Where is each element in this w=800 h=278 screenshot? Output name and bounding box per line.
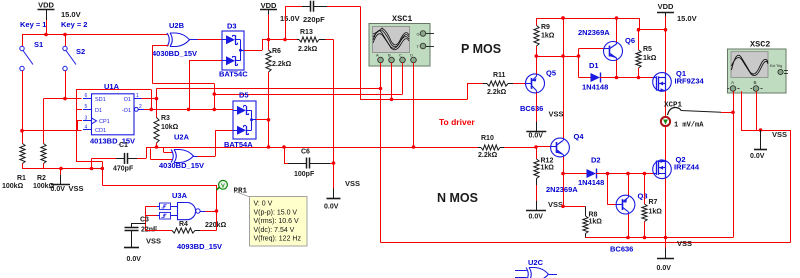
svg-text:D5: D5 (239, 91, 249, 100)
label D1 (589, 61, 599, 70)
label BC636 (Q5) (520, 104, 543, 113)
label R3 (161, 115, 170, 122)
power VDD symbol (left) (38, 1, 55, 21)
label 15.0V (mid) (280, 14, 300, 23)
svg-text:IRFZ44: IRFZ44 (674, 163, 700, 172)
label 1kohm R8 (589, 219, 603, 226)
node D5out-R6 j (267, 118, 271, 122)
label R10 (481, 135, 494, 142)
node R5 bottom j (637, 76, 641, 80)
label Q1 (676, 69, 686, 78)
wire Q5 top (536, 56, 538, 74)
svg-text:1N4148: 1N4148 (578, 178, 604, 187)
resistor R7 (642, 174, 647, 238)
svg-text:P MOS: P MOS (461, 42, 501, 56)
wire nO1 line (144, 109, 233, 111)
label 470pF (113, 166, 134, 173)
label 0.0V (C3) (127, 256, 142, 263)
svg-text:2: 2 (139, 104, 142, 110)
svg-text:R12: R12 (541, 158, 554, 165)
svg-text:VSS: VSS (345, 179, 360, 188)
label 1kohm R9 (541, 33, 555, 40)
node nO1 j1 (150, 108, 154, 112)
capacitor C3 (125, 223, 146, 231)
transistor Q6 (604, 42, 623, 61)
label Q3 (638, 192, 648, 201)
wire U2A out (198, 130, 234, 156)
node Q4C rail j (561, 16, 565, 20)
node U2B inB j (213, 92, 217, 96)
label IRF9Z34 (675, 77, 705, 86)
U1A pin names (92, 97, 132, 134)
ground (C3) (124, 231, 139, 248)
svg-text:1N4148: 1N4148 (582, 83, 608, 92)
svg-text:4: 4 (85, 124, 88, 130)
node rail end junction (101, 167, 105, 171)
label 0.0V (Q2) (657, 265, 672, 272)
svg-text:10kΩ: 10kΩ (161, 124, 179, 131)
transistor Q3 (616, 195, 635, 214)
diode D5 top (233, 106, 252, 115)
wire rail step (639, 18, 666, 30)
wire D5 top anode drop (214, 94, 216, 109)
wire Q5 base net (360, 83, 483, 100)
svg-text:15.0V: 15.0V (61, 10, 81, 19)
svg-text:Ext Trig: Ext Trig (770, 64, 782, 68)
svg-text:1kΩ: 1kΩ (649, 209, 663, 216)
svg-text:BAT54A: BAT54A (224, 140, 253, 149)
node 220pF j (283, 38, 287, 42)
label 220kohm (205, 222, 227, 229)
wire Q3 top (628, 174, 630, 196)
svg-text:CD1: CD1 (95, 128, 106, 134)
label 0.0V (R13) (324, 204, 339, 211)
diode D1 (579, 73, 617, 83)
svg-text:1: 1 (136, 93, 139, 99)
svg-text:D1: D1 (95, 108, 102, 114)
label 2N2369A (Q4) (546, 185, 578, 194)
svg-text:D: D (410, 53, 413, 58)
U1A pin numbers (85, 93, 143, 130)
wire C1 left (92, 158, 117, 168)
resistor R2 (41, 141, 46, 169)
switch S2 (63, 46, 76, 70)
label XSC2 (750, 40, 770, 50)
ground (XSC2) (754, 130, 767, 150)
wire D3 out (244, 40, 297, 51)
node rail Q4C j (561, 16, 565, 20)
label VSS (R13) (345, 179, 360, 188)
svg-text:2N2369A: 2N2369A (578, 28, 610, 37)
svg-text:R11: R11 (493, 72, 506, 79)
xor U2B (167, 33, 198, 47)
wire U2A in jog (151, 147, 173, 160)
svg-text:V(freq): 122 Hz: V(freq): 122 Hz (254, 236, 302, 243)
svg-text:V(rms): 10.6 V: V(rms): 10.6 V (254, 218, 299, 225)
label VSS (C3) (146, 237, 161, 246)
svg-text:1kΩ: 1kΩ (643, 55, 657, 62)
wire Q4 emitter (563, 157, 565, 174)
label R4 (179, 221, 188, 228)
label 0.0V (R1R2) (51, 186, 66, 193)
label U3A (172, 191, 188, 200)
label Q6 (625, 36, 635, 45)
svg-text:R7: R7 (649, 199, 658, 206)
label Q5 (546, 69, 556, 78)
label C1 (119, 142, 128, 149)
svg-text:VSS: VSS (677, 239, 692, 248)
schmitt input B (157, 212, 178, 219)
label VSS (R12) (548, 200, 563, 209)
node R8 top j (561, 205, 565, 209)
wire XSC2 Aneg drop (741, 91, 761, 130)
svg-text:SD1: SD1 (95, 97, 106, 103)
node Q5-R9 j (535, 54, 539, 58)
svg-text:1kΩ: 1kΩ (541, 165, 555, 172)
label 4013BD_15V (90, 137, 135, 146)
svg-text:Q4: Q4 (574, 132, 585, 141)
svg-text:To driver: To driver (439, 117, 475, 127)
svg-text:S1: S1 (34, 40, 43, 49)
node VDD2-R6 j (267, 38, 271, 42)
label 2N2369A (Q6) (578, 28, 610, 37)
power VDD symbol (mid) (260, 1, 277, 15)
label 2.2kohm R13 (298, 46, 318, 53)
resistor R10 (462, 145, 536, 150)
svg-text:C: C (399, 53, 402, 58)
oscilloscope XSC2 (728, 49, 789, 93)
node ground tap (59, 167, 63, 171)
wire P gate line (617, 77, 654, 79)
node O1 junction (155, 97, 159, 101)
wire Q3 bottom (628, 214, 630, 238)
label 15.0V (left VDD) (61, 10, 81, 19)
svg-text:U3A: U3A (172, 191, 188, 200)
node S2-SD1 junction (63, 97, 67, 101)
wire scope Bneg drop (413, 63, 415, 147)
svg-text:Q6: Q6 (625, 36, 635, 45)
node S2-rail junction (63, 33, 67, 37)
label 15.0V (right) (677, 14, 697, 23)
wire D3 inB (189, 61, 222, 110)
svg-text:4093BD_15V: 4093BD_15V (177, 242, 222, 251)
wire PR1 feed (102, 185, 216, 187)
svg-text:1kΩ: 1kΩ (541, 33, 555, 40)
node XCP1-A j (731, 111, 735, 115)
wire VSS rail bottom (585, 237, 733, 239)
svg-text:U2C: U2C (528, 258, 544, 267)
svg-text:U2B: U2B (169, 21, 185, 30)
wire S2 bottom (65, 71, 67, 99)
power VDD symbol (right) (657, 2, 674, 17)
svg-text:0.0V: 0.0V (51, 186, 66, 193)
node VDD3 j (664, 28, 668, 32)
wire Q1-Q2 (665, 126, 667, 160)
svg-text:470pF: 470pF (113, 166, 134, 173)
label 100kohm R1 (2, 183, 24, 190)
svg-text:R13: R13 (300, 29, 313, 36)
label R7 (649, 199, 658, 206)
ground (R1 R2) (51, 168, 70, 185)
wire scope A drop (380, 63, 382, 89)
wire ground rail (22, 168, 102, 170)
schmitt input A (157, 203, 178, 210)
svg-text:2N2369A: 2N2369A (546, 185, 578, 194)
wire D2 line left (563, 173, 587, 175)
svg-text:XSC2: XSC2 (750, 40, 770, 50)
wire U2B inB (153, 45, 215, 94)
node S1-CD1 junction (20, 129, 24, 133)
svg-text:A: A (376, 53, 379, 58)
D3 common cathode (239, 40, 244, 61)
label P MOS (461, 42, 501, 56)
resistor R8 (583, 206, 588, 237)
wire D5 top anode (214, 109, 233, 111)
node Q6E j (615, 76, 619, 80)
PR1 callout box (234, 191, 307, 246)
svg-text:220pF: 220pF (303, 15, 325, 24)
label Key = 1 (20, 20, 46, 29)
svg-text:R3: R3 (161, 115, 170, 122)
node Q3S rail j (626, 236, 630, 240)
wire XSC2 A drop (733, 91, 735, 237)
label 10kohm (161, 124, 179, 131)
node Q4E-D2 j (561, 172, 565, 176)
label D2 (591, 156, 601, 165)
svg-text:Key = 1: Key = 1 (20, 20, 46, 29)
wire Q4 base (536, 146, 551, 148)
svg-text:VDD: VDD (658, 2, 674, 11)
svg-text:V(dc): 7.54 V: V(dc): 7.54 V (254, 227, 295, 234)
label 0.0V (R12) (529, 214, 544, 221)
diode D2 (587, 169, 608, 179)
switch S1 (20, 46, 33, 70)
resistor R9 (534, 18, 539, 56)
svg-text:S2: S2 (76, 47, 85, 56)
wire CD1 net (22, 121, 82, 131)
wire XSC2 B drop (756, 91, 758, 130)
svg-text:C3: C3 (140, 217, 149, 224)
svg-text:XSC1: XSC1 (392, 14, 412, 24)
label R12 (541, 158, 554, 165)
ground (R13) (327, 189, 341, 199)
label XSC1 (392, 14, 412, 24)
node Q4C mid j (561, 54, 565, 58)
svg-text:IRF9Z34: IRF9Z34 (675, 77, 705, 86)
wire R13 gnd (333, 163, 335, 189)
label 1 mV/mA (674, 122, 704, 130)
label U1A (104, 82, 120, 91)
svg-text:V: V (221, 183, 225, 189)
label 22nF (141, 227, 158, 234)
svg-text:B: B (388, 53, 391, 58)
mosfet Q2 IRFZ44 (653, 159, 672, 179)
label D3 (227, 22, 237, 31)
node scope Bneg j (412, 145, 416, 149)
svg-text:BAT54C: BAT54C (219, 70, 248, 79)
wire top rail S1-S2-U2B (22, 34, 169, 36)
node R7 top j (643, 172, 647, 176)
wire Q6 base (579, 49, 604, 78)
svg-text:Key = 2: Key = 2 (61, 20, 87, 29)
label 0.0V (Q5) (529, 133, 544, 140)
svg-text:R8: R8 (589, 212, 598, 219)
wire PR1 riser (216, 185, 218, 211)
node R7 rail j (643, 236, 647, 240)
label 1N4148 (D2) (578, 178, 604, 187)
wire Q3 base drop (608, 174, 617, 205)
wire R3 top (156, 99, 158, 118)
wire scope B drop (402, 63, 404, 94)
mosfet Q1 IRF9Z34 (653, 73, 672, 93)
svg-text:CP1: CP1 (99, 119, 110, 125)
label R11 (493, 72, 506, 79)
label Q2 (676, 155, 686, 164)
label Q4 (574, 132, 585, 141)
svg-text:BC636: BC636 (610, 245, 633, 254)
label 4093BD_15V (177, 242, 222, 251)
svg-text:VSS: VSS (146, 237, 161, 246)
oscilloscope XSC1 (369, 24, 434, 67)
svg-text:2.2kΩ: 2.2kΩ (478, 152, 498, 159)
wire Q4 collector (563, 18, 565, 138)
wire SD1 net (44, 99, 83, 142)
svg-text:C1: C1 (119, 142, 128, 149)
wire C6 left drop (284, 147, 288, 164)
wire Q5 bottom (536, 92, 538, 121)
svg-text:100kΩ: 100kΩ (2, 183, 24, 190)
wire VDD3 stem (665, 17, 667, 30)
svg-text:3: 3 (85, 115, 88, 121)
flip-flop U1A box (92, 94, 135, 135)
wire VDD rail right (536, 18, 639, 20)
label XCP1 (664, 102, 683, 110)
label R13 (300, 29, 313, 36)
wire S1 top (22, 35, 24, 47)
svg-text:0.0V: 0.0V (750, 153, 765, 160)
wire VDD1 stem (46, 20, 48, 35)
wire O1 out (142, 98, 157, 100)
wire 220pF drop (285, 6, 287, 39)
svg-text:VSS: VSS (549, 109, 564, 118)
wire Q6 collector (616, 18, 618, 42)
svg-text:VSS: VSS (772, 130, 787, 139)
node R3 bottom j (155, 145, 159, 149)
label R1 (17, 175, 26, 182)
wire S1 bottom to R1 (22, 71, 24, 141)
svg-text:A: A (731, 80, 734, 85)
transistor Q5 (526, 74, 545, 93)
svg-text:R1: R1 (17, 175, 26, 182)
node C6-R13 j (332, 161, 336, 165)
svg-text:R10: R10 (481, 135, 494, 142)
node Q6C rail j (615, 16, 619, 20)
node Q3 base j (606, 172, 610, 176)
label 4030BD_15V (U2B) (152, 49, 197, 58)
node R5 top j (637, 28, 641, 32)
wire big loop (381, 89, 791, 243)
label Key = 2 (61, 20, 87, 29)
capacitor C1 (116, 153, 137, 164)
wire R11 to Q5 (523, 83, 526, 85)
svg-text:R9: R9 (541, 24, 550, 31)
label U2B (169, 21, 185, 30)
label C3 (140, 217, 149, 224)
label 1kohm R5 (643, 55, 657, 62)
label N MOS (437, 191, 478, 205)
label BC636 (Q3) (610, 245, 633, 254)
resistor R4 (172, 228, 200, 233)
node scope A j (379, 87, 383, 91)
svg-text:0.0V: 0.0V (324, 204, 339, 211)
svg-text:2.2kΩ: 2.2kΩ (298, 46, 318, 53)
resistor R5 (636, 30, 641, 78)
svg-text:B: B (754, 80, 757, 85)
label 1N4148 (D1) (582, 83, 608, 92)
transistor Q4 (551, 138, 570, 157)
ground (Q5) (526, 121, 546, 132)
svg-text:VSS: VSS (69, 184, 84, 193)
nand U3A (178, 203, 206, 220)
ground (Q2) (657, 238, 674, 259)
label 1kohm R12 (541, 165, 555, 172)
svg-text:R6: R6 (272, 48, 281, 55)
svg-text:VDD: VDD (261, 1, 277, 10)
capacitor C-220pF (285, 1, 360, 12)
wire S2 top (65, 35, 67, 47)
node Q2S rail j (664, 236, 668, 240)
node D1 anode j (577, 54, 581, 58)
svg-text:BC636: BC636 (520, 104, 543, 113)
svg-text:220kΩ: 220kΩ (205, 222, 227, 229)
label R2 (37, 175, 46, 182)
svg-text:6: 6 (85, 93, 88, 99)
svg-text:0.0V: 0.0V (127, 256, 142, 263)
svg-text:N MOS: N MOS (437, 191, 478, 205)
node C6 left j (282, 145, 286, 149)
svg-text:1kΩ: 1kΩ (589, 219, 603, 226)
wire U3A out (206, 211, 217, 213)
svg-text:Q5: Q5 (546, 69, 556, 78)
resistor R6 (266, 40, 271, 120)
svg-text:D1: D1 (589, 61, 599, 70)
node Q3 top j (626, 172, 630, 176)
node R10 right j (534, 145, 538, 149)
svg-text:D2: D2 (591, 156, 601, 165)
node C1 rail tap (90, 167, 94, 171)
node U3A out j (215, 209, 219, 213)
diode D3 box (222, 31, 244, 70)
node XSC2 gnd j (759, 128, 763, 132)
resistor R3 (154, 118, 159, 148)
label R8 (589, 212, 598, 219)
wire R8 top (563, 206, 585, 208)
label 100kohm R2 (33, 183, 55, 190)
svg-text:-O1: -O1 (122, 108, 131, 114)
svg-text:O1: O1 (124, 97, 131, 103)
label C6 (301, 149, 310, 156)
wire D5 out (256, 119, 269, 121)
label 0.0V (XSC2) (750, 153, 765, 160)
diode D5 box (233, 101, 256, 139)
resistor R11 (483, 81, 523, 86)
svg-text:C6: C6 (301, 149, 310, 156)
node VDD-rail junction (44, 33, 48, 37)
svg-text:D3: D3 (227, 22, 237, 31)
diode D3 top (222, 35, 241, 44)
wire XCP1 output (681, 111, 733, 113)
svg-text:15.0V: 15.0V (280, 14, 300, 23)
